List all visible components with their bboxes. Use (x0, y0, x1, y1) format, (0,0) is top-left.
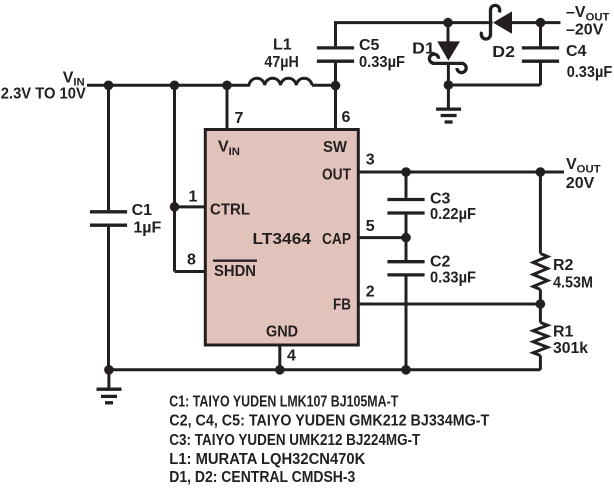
svg-text:4.53M: 4.53M (553, 275, 593, 292)
svg-text:0.22µF: 0.22µF (430, 206, 476, 223)
wire C3 lower lead (405, 215, 408, 261)
label C5 (359, 37, 380, 54)
IC pin label VIN (pin 7) (218, 139, 240, 158)
node FB/R2/R1 junction (536, 299, 546, 309)
svg-text:GND: GND (266, 324, 298, 341)
svg-text:20V: 20V (566, 175, 595, 192)
pin number 7 (235, 110, 244, 127)
label VIN input (63, 69, 85, 88)
ground at D1 (436, 85, 461, 122)
svg-text:CTRL: CTRL (210, 202, 250, 219)
notes line 5 (169, 469, 355, 486)
diode D1 (Schottky, pointing down) (429, 23, 466, 85)
capacitor C4 (522, 23, 559, 85)
svg-text:6: 6 (342, 109, 351, 126)
svg-text:47µH: 47µH (264, 54, 298, 71)
svg-text:8: 8 (187, 252, 196, 269)
node D1/C4 bottom junction (444, 80, 454, 90)
label C2 (430, 254, 451, 271)
label C4 (566, 43, 587, 60)
pin number 1 (189, 189, 198, 206)
wire C1 upper lead (107, 85, 110, 210)
wire CAP pin 5 (358, 236, 406, 239)
svg-text:C4: C4 (566, 43, 587, 60)
label L1 (273, 37, 292, 54)
label C5 value 0.33µF (359, 54, 405, 71)
svg-text:0.33µF: 0.33µF (359, 54, 405, 71)
node VIN/pin7 junction (222, 81, 232, 91)
svg-text:D1, D2: CENTRAL CMDSH-3: D1, D2: CENTRAL CMDSH-3 (169, 469, 355, 486)
IC pin label SW (pin 6) (323, 139, 348, 156)
label C3 value 0.22µF (430, 206, 476, 223)
pin number 4 (287, 348, 296, 365)
label -20V (566, 22, 604, 39)
svg-text:5: 5 (366, 218, 375, 235)
svg-text:2: 2 (366, 284, 375, 301)
wire SHDN to pin 8 (175, 270, 207, 273)
svg-text:L1: MURATA LQH32CN470K: L1: MURATA LQH32CN470K (169, 451, 365, 468)
resistor R1 (533, 304, 547, 370)
label D2 (492, 44, 515, 61)
label -VOUT (566, 4, 610, 24)
node bottom rail / pin 4 (275, 365, 285, 375)
svg-text:0.33µF: 0.33µF (430, 269, 476, 286)
svg-text:SHDN: SHDN (214, 263, 256, 280)
label C1 value 1µF (133, 220, 161, 237)
svg-text:4: 4 (287, 348, 296, 365)
pin number 3 (366, 151, 375, 168)
wire pin 6 drop (334, 86, 337, 131)
IC pin label FB (pin 2) (333, 297, 351, 314)
node SW/L1/C5 junction (331, 81, 341, 91)
IC U1 LT3464 body (205, 130, 358, 346)
label C4 value 0.33µF (567, 64, 613, 81)
wire CTRL/SHDN vertical (173, 85, 176, 271)
label R1 value 301k (553, 340, 588, 357)
wire pin 4 drop (278, 347, 281, 370)
svg-text:C2: C2 (430, 254, 451, 271)
capacitor C1 (90, 212, 127, 225)
wire OUT rail (358, 171, 564, 174)
node VIN/C1 junction (104, 81, 114, 91)
svg-text:1: 1 (189, 189, 198, 206)
svg-text:R2: R2 (553, 257, 574, 274)
svg-text:R1: R1 (553, 324, 574, 341)
node VIN/CTRL junction (170, 81, 180, 91)
svg-text:7: 7 (235, 110, 244, 127)
capacitor C5 (317, 48, 354, 61)
notes line 1 (169, 393, 398, 410)
node D1 top junction (443, 18, 453, 28)
capacitor C2 (387, 262, 424, 275)
inductor L1 (249, 78, 336, 85)
pin number 5 (366, 218, 375, 235)
svg-text:D2: D2 (492, 44, 515, 61)
wire C1 lower lead (107, 227, 110, 370)
node bottom rail / C2 (401, 365, 411, 375)
resistor R2 (533, 172, 547, 304)
svg-text:C1: TAIYO YUDEN LMK107 BJ105MA: C1: TAIYO YUDEN LMK107 BJ105MA-T (169, 393, 398, 410)
wire bottom ground rail (109, 368, 541, 371)
node C4 top junction (536, 18, 546, 28)
node OUT/C3 junction (401, 167, 411, 177)
svg-text:OUT: OUT (322, 167, 351, 184)
wire top rail to D2 (448, 21, 493, 24)
wire C3 upper lead (405, 172, 408, 198)
svg-text:–20V: –20V (566, 22, 604, 39)
wire C5 lower lead (334, 63, 337, 86)
svg-text:3: 3 (366, 151, 375, 168)
svg-text:C5: C5 (359, 37, 380, 54)
node CAP junction (401, 233, 411, 243)
wire C5 top lead and top rail (336, 23, 449, 47)
svg-text:D1: D1 (412, 40, 435, 57)
svg-text:C2, C4, C5: TAIYO YUDEN GMK212: C2, C4, C5: TAIYO YUDEN GMK212 BJ334MG-T (169, 412, 490, 429)
label C1 (132, 202, 153, 219)
IC pin label CTRL (pin 1) (210, 202, 250, 219)
pin number 8 (187, 252, 196, 269)
label D1 (412, 40, 435, 57)
label C2 value 0.33µF (430, 269, 476, 286)
label R1 (553, 324, 574, 341)
label 20V (566, 175, 595, 192)
label R2 value 4.53M (553, 275, 593, 292)
node OUT/R2 junction (536, 167, 546, 177)
notes line 4 (169, 451, 365, 468)
capacitor C3 (387, 200, 424, 214)
svg-text:L1: L1 (273, 37, 292, 54)
ground main (97, 370, 122, 403)
label R2 (553, 257, 574, 274)
pin number 6 (342, 109, 351, 126)
label VOUT (566, 156, 601, 176)
svg-text:1µF: 1µF (133, 220, 161, 237)
IC pin label GND (pin 4) (266, 324, 298, 341)
wire D1 to C4 bottom (448, 84, 540, 87)
wire D2 to C4 node (512, 21, 561, 24)
svg-text:2.3V TO 10V: 2.3V TO 10V (1, 86, 86, 103)
svg-text:C1: C1 (132, 202, 153, 219)
diode D2 (Schottky, pointing left) (481, 5, 512, 39)
pin number 2 (366, 284, 375, 301)
node bottom rail / C1 (104, 365, 114, 375)
svg-text:FB: FB (333, 297, 351, 314)
svg-text:LT3464: LT3464 (253, 231, 312, 248)
wire pin 7 drop (226, 85, 229, 131)
label C3 (430, 191, 451, 208)
wire CTRL to pin 1 (175, 205, 207, 208)
svg-text:CAP: CAP (322, 231, 351, 248)
IC pin label OUT (pin 3) (322, 167, 351, 184)
svg-text:SW: SW (323, 139, 348, 156)
notes line 2 (169, 412, 490, 429)
IC pin label SHDN (pin 8) with overline (213, 261, 257, 280)
svg-text:C3: TAIYO YUDEN UMK212 BJ224MG: C3: TAIYO YUDEN UMK212 BJ224MG-T (169, 432, 421, 449)
IC pin label CAP (pin 5) (322, 231, 351, 248)
svg-text:0.33µF: 0.33µF (567, 64, 613, 81)
notes line 3 (169, 432, 421, 449)
wire VIN rail (87, 84, 250, 87)
IC part number LT3464 (253, 231, 312, 248)
label input range 2.3V TO 10V (1, 86, 86, 103)
label L1 value 47µH (264, 54, 298, 71)
wire FB rail (358, 303, 540, 306)
svg-text:301k: 301k (553, 340, 588, 357)
wire C2 lower lead (405, 276, 408, 369)
node CTRL junction (170, 202, 180, 212)
